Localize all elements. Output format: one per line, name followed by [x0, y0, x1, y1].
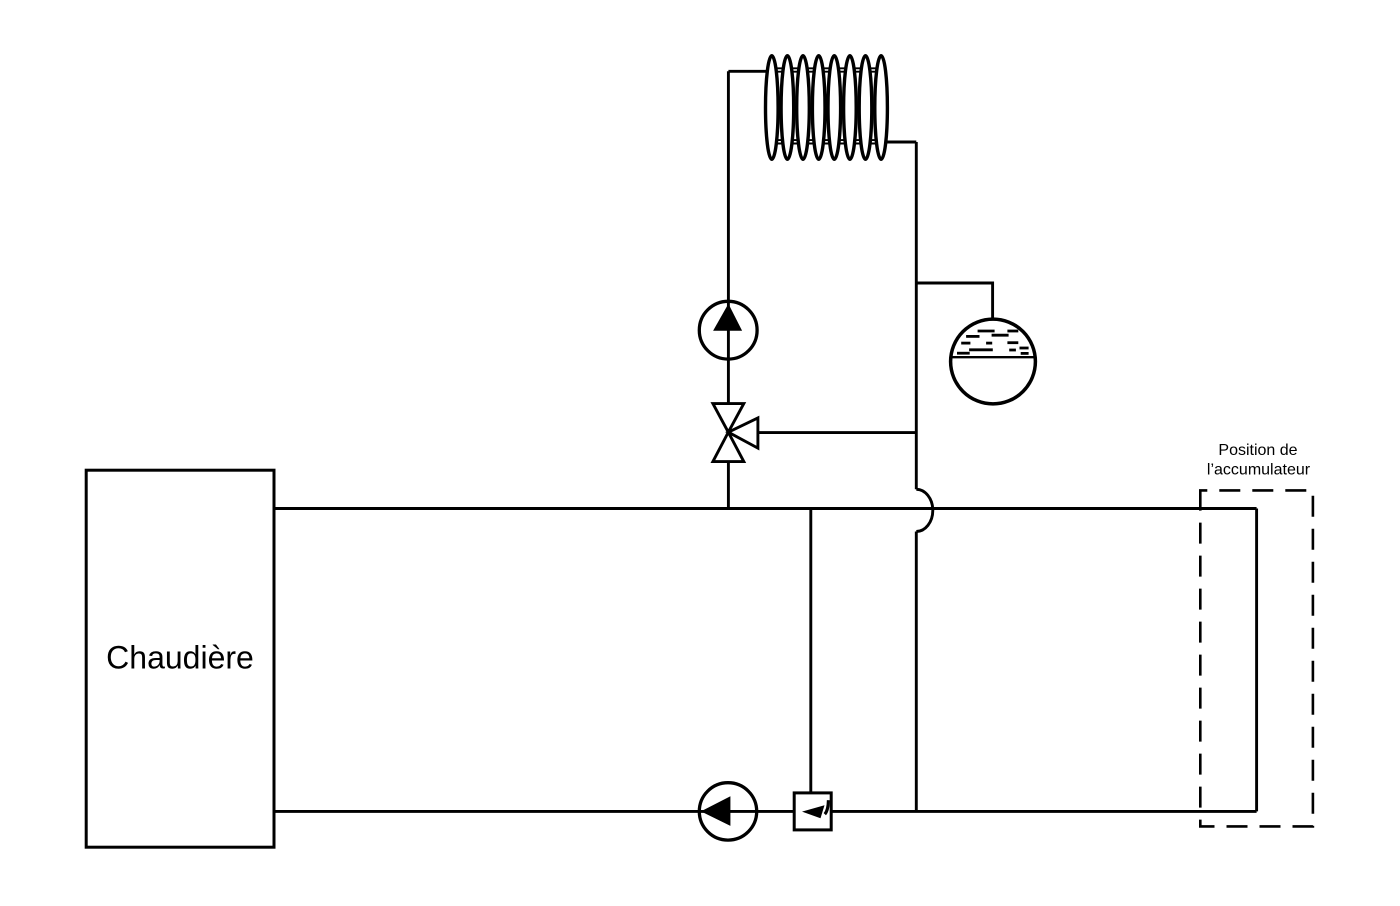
wire riser C (check valve branch): [809, 509, 812, 796]
three-way valve V1 right triangle: [728, 418, 758, 448]
pump P2 impeller arrow: [701, 796, 731, 826]
three-way valve V1 top triangle: [713, 404, 744, 433]
wire riser A (pump/valve branch): [727, 71, 730, 508]
wire bottom return pipe: [274, 810, 1257, 813]
expansion vessel shell: [951, 319, 1036, 404]
wire coil outlet: [877, 141, 916, 144]
svg-text:Position de: Position de: [1218, 442, 1297, 459]
coil heat exchanger connector turns: [771, 68, 882, 143]
wire crossing hop over top pipe: [916, 489, 933, 531]
coil heat exchanger loops: [766, 56, 888, 160]
pump P1 impeller arrow: [713, 304, 742, 331]
expansion vessel water line: [951, 356, 1035, 358]
svg-text:l’accumulateur: l’accumulateur: [1207, 462, 1311, 479]
wire riser B lower segment: [915, 532, 918, 812]
accumulator position dashed outline: [1200, 490, 1313, 826]
expansion vessel liquid dashes: [957, 331, 1029, 353]
check valve arrow: [802, 805, 825, 818]
pump P2 circle: [699, 783, 756, 840]
wire valve right-port branch: [758, 431, 916, 434]
check valve flap tail: [825, 800, 829, 814]
boiler box: [86, 470, 274, 847]
three-way valve V1 bottom triangle: [713, 432, 744, 461]
svg-text:Chaudière: Chaudière: [106, 640, 254, 676]
check valve body: [794, 793, 831, 830]
pump P1 circle: [699, 301, 757, 359]
wire expansion vessel branch: [916, 283, 992, 321]
wire riser B upper segment: [915, 142, 918, 489]
wire coil inlet: [728, 70, 776, 73]
wire right vertical pipe: [1255, 509, 1258, 812]
wire top supply pipe: [274, 507, 1257, 510]
